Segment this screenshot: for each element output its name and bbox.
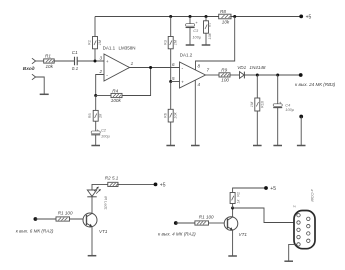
svg-text:VD1: VD1	[237, 65, 246, 70]
wire terminal to R1	[176, 222, 195, 224]
connector pin input signal	[32, 58, 36, 64]
wire R10 column	[256, 75, 258, 98]
node rail-pin8	[233, 15, 236, 18]
svg-text:R7: R7	[207, 22, 212, 27]
svg-text:C3: C3	[193, 28, 199, 33]
wire node to R4	[96, 95, 111, 97]
resistor R6	[162, 109, 177, 122]
node MCU input terminal bottom-left	[34, 217, 38, 221]
svg-text:к вых. 6 МК (RA2): к вых. 6 МК (RA2)	[16, 229, 54, 234]
node C4 junction	[276, 74, 279, 77]
wire pin8 to +5 rail	[196, 17, 235, 71]
capacitor C2 100u electrolytic	[91, 127, 110, 138]
wire R10 to ground	[256, 111, 258, 145]
ground pin4	[191, 145, 200, 147]
svg-text:8: 8	[198, 63, 201, 68]
wire R3 to pin5 node	[170, 49, 172, 82]
svg-text:+: +	[106, 59, 109, 64]
wire input to R1	[36, 60, 44, 62]
wire pin2 to feedback node	[96, 75, 104, 96]
wire R6 to ground	[170, 122, 172, 145]
svg-text:R2: R2	[235, 192, 240, 197]
node output junction	[149, 66, 152, 69]
ground C3	[186, 44, 195, 46]
ground VT1 emitter	[88, 255, 97, 257]
node pin5 junction	[169, 80, 172, 83]
resistor R4 100k	[111, 88, 122, 103]
wire R9 to VD1	[230, 74, 240, 76]
svg-text:1k: 1k	[235, 198, 240, 203]
op-amp DA1.2	[172, 52, 210, 88]
svg-text:10k: 10k	[207, 32, 212, 39]
node feedback junction	[94, 94, 97, 97]
svg-text:4: 4	[198, 82, 201, 87]
wire collector to LED	[91, 197, 93, 214]
wire R5 column	[95, 96, 97, 111]
wire C3 column	[189, 17, 191, 24]
svg-text:R8: R8	[220, 9, 226, 14]
resistor R1 100 bottom-left	[56, 211, 73, 222]
wire R7 to ground	[205, 33, 207, 45]
ground R10	[253, 145, 262, 147]
node R10 junction	[256, 74, 259, 77]
ground input	[40, 93, 49, 95]
svg-text:IR Led1: IR Led1	[104, 196, 109, 210]
ground R6	[166, 145, 175, 147]
resistor R3	[162, 37, 177, 49]
wire emitter to ground	[232, 230, 234, 256]
resistor R2	[87, 37, 102, 49]
wire R2 to +5 terminal	[233, 188, 266, 193]
resistor R1 100 bottom-right	[195, 214, 214, 225]
svg-text:1N4148: 1N4148	[249, 65, 266, 70]
ground VT1 emitter bottom-right	[228, 255, 237, 257]
wire C2 to ground	[95, 135, 97, 146]
wire input gnd	[36, 77, 45, 94]
svg-text:C1: C1	[72, 50, 78, 55]
wire R2 to +5 terminal	[118, 183, 156, 185]
svg-text:DA1.1: DA1.1	[103, 46, 116, 51]
wire top rail left segment	[95, 16, 219, 18]
node +5 terminal bottom-right	[264, 186, 276, 192]
wire pin5 node to R6	[170, 82, 172, 110]
wire R1 to VT1 base	[70, 218, 87, 221]
svg-text:1M: 1M	[249, 101, 254, 107]
wire R7 column top	[205, 17, 207, 21]
node rail-R3	[169, 15, 172, 18]
ground C4	[273, 145, 282, 147]
wire R1 to VT1 base	[209, 222, 225, 224]
svg-text:LM358N: LM358N	[119, 46, 136, 51]
wire C3 to ground	[189, 28, 191, 45]
wire DA1.1 output to DA1.2 pin6	[130, 67, 180, 69]
wire pin4 to ground	[194, 80, 196, 145]
led IR Led1	[87, 187, 108, 210]
capacitor C3 100u electrolytic	[186, 20, 202, 40]
wire pin5 to triangle	[171, 81, 180, 83]
node MCU input terminal bottom-right	[174, 221, 178, 225]
svg-text:+5: +5	[306, 15, 312, 21]
svg-text:C2: C2	[101, 128, 107, 133]
svg-text:1M: 1M	[173, 39, 178, 45]
svg-text:R10: R10	[259, 100, 264, 108]
svg-text:DA1.2: DA1.2	[180, 52, 193, 57]
wire C1 to pin3	[77, 60, 104, 62]
svg-text:к вых. 4 МК (RA2): к вых. 4 МК (RA2)	[158, 231, 196, 236]
svg-text:10k: 10k	[173, 111, 178, 118]
wire LED anode to R2	[92, 184, 108, 190]
diode VD1 1N4148	[237, 65, 266, 78]
svg-text:1M: 1M	[97, 39, 102, 45]
svg-text:R6: R6	[162, 113, 167, 118]
svg-text:3: 3	[100, 55, 103, 60]
wire collector node to DB9 pin2	[233, 208, 297, 223]
svg-text:100k: 100k	[111, 98, 122, 103]
wire R2 column top	[94, 17, 96, 37]
wire node to R2 pullup	[232, 204, 234, 209]
resistor R5	[87, 110, 103, 121]
transistor VT1 bottom-right	[224, 217, 247, 237]
node +5 terminal bottom-left	[154, 183, 166, 189]
svg-text:R5: R5	[87, 113, 92, 118]
wire R4 to output riser	[122, 68, 151, 96]
connector XS1 DB9	[292, 190, 316, 249]
svg-text:1: 1	[131, 61, 134, 66]
ground common terminal	[297, 145, 306, 147]
svg-text:R9: R9	[221, 68, 227, 73]
capacitor C4 100u electrolytic	[273, 100, 295, 112]
svg-text:2: 2	[292, 205, 297, 207]
resistor R7	[204, 21, 213, 40]
wire VD1 to output terminal	[244, 74, 300, 76]
svg-text:0.1: 0.1	[72, 66, 79, 71]
svg-text:R3: R3	[162, 40, 167, 45]
svg-text:R2: R2	[87, 40, 92, 45]
svg-text:10k: 10k	[222, 20, 230, 25]
svg-text:R1 100: R1 100	[58, 211, 73, 216]
node collector junction	[231, 207, 234, 210]
svg-text:+5: +5	[270, 186, 276, 192]
svg-text:+5: +5	[160, 183, 166, 189]
wire C4 to ground	[277, 108, 279, 146]
svg-text:100µ: 100µ	[192, 35, 201, 40]
resistor R8 10k	[219, 9, 231, 24]
svg-text:2: 2	[99, 69, 103, 74]
wire DA1.2 output to R9	[206, 74, 220, 76]
node output terminal	[299, 73, 303, 77]
wire terminal to R1	[35, 218, 56, 220]
wire C4 column	[277, 75, 279, 104]
node rail-C3	[189, 15, 192, 18]
wire R5 to C2	[95, 121, 97, 131]
svg-text:6: 6	[172, 62, 175, 67]
wire R2 to pin3 node	[94, 49, 96, 61]
wire common terminal to ground	[300, 117, 302, 146]
svg-text:Вход: Вход	[23, 66, 35, 72]
capacitor C1 0.1	[72, 50, 79, 71]
node pin3 junction	[94, 60, 97, 63]
svg-text:R4: R4	[112, 88, 118, 93]
wire DB9 pin5 to ground	[289, 244, 297, 261]
resistor R2 pullup bottom-right	[230, 192, 240, 204]
svg-text:к COM: к COM	[310, 190, 315, 203]
svg-text:100µ: 100µ	[285, 107, 294, 112]
ground DB9	[284, 260, 293, 262]
resistor R2 5.1 bottom-left	[105, 176, 119, 187]
resistor R9 100	[219, 68, 230, 83]
svg-text:VT1: VT1	[239, 232, 248, 237]
node +5 terminal	[299, 15, 311, 21]
wire emitter to ground	[91, 227, 93, 256]
svg-text:5: 5	[172, 76, 175, 81]
ground R7	[202, 44, 211, 46]
svg-text:R1 100: R1 100	[199, 214, 214, 219]
node common terminal	[299, 115, 303, 119]
transistor VT1 bottom-left	[83, 213, 108, 234]
svg-text:R2 5.1: R2 5.1	[105, 176, 119, 181]
svg-text:R1: R1	[45, 54, 51, 59]
svg-text:100: 100	[221, 77, 229, 82]
svg-text:100µ: 100µ	[101, 133, 110, 138]
node rail-R7	[205, 15, 208, 18]
svg-text:VT1: VT1	[99, 229, 108, 234]
svg-text:7: 7	[207, 68, 210, 73]
wire collector up to node	[232, 208, 234, 217]
resistor R1 10k	[44, 54, 55, 69]
svg-text:+: +	[195, 20, 198, 25]
ground C2	[91, 145, 100, 147]
wire top rail right segment	[231, 16, 301, 18]
op-amp DA1.1 LM358N	[99, 46, 136, 81]
connector pin input ground	[32, 74, 36, 80]
svg-text:к вых. 24 МК (RB3): к вых. 24 МК (RB3)	[295, 82, 336, 87]
svg-text:10k: 10k	[46, 64, 54, 69]
resistor R10	[249, 98, 264, 111]
wire R3 column top	[170, 17, 172, 37]
wire R1 to C1	[54, 60, 74, 62]
svg-text:+: +	[181, 80, 184, 85]
